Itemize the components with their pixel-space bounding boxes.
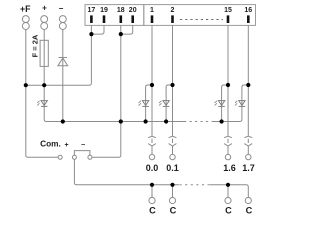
wire stub C contact channel 2 [172, 185, 174, 198]
wire channel 15 LED branch [222, 85, 228, 122]
connector box terminals 1-16 [144, 5, 256, 26]
LED channel 2 [159, 101, 169, 107]
junction +F line / plus bus [24, 83, 28, 87]
C contact circle channel 1 [149, 197, 155, 203]
wire + terminal down through fuse and power LED into minus bus [44, 30, 46, 122]
pin 2 bar [171, 15, 174, 23]
wire - terminal down through diode to minus bus [62, 30, 64, 122]
svg-text:Com.: Com. [40, 139, 61, 149]
svg-text:18: 18 [117, 7, 125, 14]
wire channel 1 LED branch [146, 85, 152, 122]
terminal - (double circle) [59, 16, 66, 23]
svg-text:17: 17 [88, 7, 96, 14]
pin 15 bar [227, 15, 230, 23]
pin 17 bar [90, 15, 93, 23]
junction C bus / channel 15 C contact [226, 183, 230, 187]
pin 16 bar [247, 15, 250, 23]
C bus wire right part turning down to last C contact [210, 185, 248, 198]
svg-text:+F: +F [20, 4, 31, 14]
minus bus wire left part [46, 121, 184, 123]
junction LED branch 1 / minus bus [144, 119, 148, 123]
plug-socket contact channel 15 [224, 136, 232, 160]
junction LED branch 15 / minus bus [220, 119, 224, 123]
junction pins 17/19 [89, 32, 93, 36]
fuse F1 body [40, 40, 48, 66]
wire stub C contact channel 15 [227, 185, 229, 198]
pin 1 bar [151, 15, 154, 23]
wire pin 18 down to Com right contact [92, 25, 121, 157]
C bus dashed continuation [180, 184, 211, 186]
Com contact + circle [72, 155, 76, 159]
svg-text:2: 2 [171, 7, 175, 14]
junction channel 2 / LED branch [170, 83, 174, 87]
plug-socket contact channel 1 [148, 136, 156, 160]
svg-text:19: 19 [100, 7, 108, 14]
wire channel 2 LED branch [166, 85, 172, 122]
svg-text:C: C [170, 206, 177, 216]
junction fuse line / plus bus [42, 83, 46, 87]
plug-socket contact channel 2 [169, 136, 177, 160]
junction C bus / channel 2 C contact [170, 183, 174, 187]
Com contact - circle [88, 155, 92, 159]
wire channel 2 (pin 2 to socket) [172, 25, 174, 136]
wire Com + contact down into C bus [74, 159, 76, 185]
C contact circle channel 16 [245, 197, 251, 203]
wire +F terminal down to Com left contact [26, 30, 58, 158]
diode V1 cathode bar [59, 57, 67, 59]
C contact circle channel 15 [225, 197, 231, 203]
svg-text:C: C [225, 206, 232, 216]
plus bus wire (to pin 17) [26, 25, 92, 85]
wire channel 16 (pin 16 to socket) [247, 25, 249, 136]
svg-text:1.6: 1.6 [223, 163, 236, 173]
dashed continuation pins 2..15 [180, 19, 223, 21]
minus bus wire right part rising into channel 16 LED branch [212, 85, 248, 122]
svg-text:+: + [64, 142, 68, 149]
wire channel 15 (pin 15 to socket) [227, 25, 229, 136]
Com bridge jumper [74, 151, 90, 156]
svg-text:1.7: 1.7 [242, 163, 255, 173]
power LED H1 [37, 101, 47, 107]
minus bus dashed continuation [184, 121, 212, 123]
pin 19 bar [103, 15, 106, 23]
pin 20 bar [131, 15, 134, 23]
C bus wire left part [76, 184, 179, 186]
LED channel 1 [139, 101, 149, 107]
junction pins 18/20 [119, 32, 123, 36]
LED channel 16 [235, 101, 245, 107]
svg-text:C: C [149, 206, 156, 216]
Com contact left circle [58, 155, 62, 159]
svg-text:F = 2A: F = 2A [30, 34, 39, 57]
pin 18 bar [120, 15, 123, 23]
wire channel 1 (pin 1 to socket) [151, 25, 153, 136]
LED channel 15 [215, 101, 225, 107]
junction LED branch 2 / minus bus [164, 119, 168, 123]
svg-text:−: − [81, 142, 85, 149]
svg-text:C: C [246, 206, 253, 216]
diode V1 triangle [58, 58, 68, 66]
svg-text:+: + [42, 4, 47, 13]
junction - line / minus bus [61, 119, 65, 123]
svg-text:15: 15 [224, 7, 232, 14]
wire pin 20 jog to pin 18 [121, 25, 133, 34]
svg-text:1: 1 [150, 7, 154, 14]
svg-text:−: − [59, 4, 64, 13]
junction channel 1 / LED branch [150, 83, 154, 87]
svg-text:0.0: 0.0 [146, 163, 159, 173]
junction channel 16 / LED branch [246, 83, 250, 87]
plug-socket contact channel 16 [244, 136, 252, 160]
wire pin 19 jog to pin 17 [91, 25, 104, 34]
junction 18 line / minus bus [119, 119, 123, 123]
svg-text:0.1: 0.1 [166, 163, 179, 173]
svg-text:20: 20 [129, 7, 137, 14]
terminal +F (double circle) [22, 16, 29, 23]
C contact circle channel 2 [169, 197, 175, 203]
wire stub C contact channel 1 [151, 185, 153, 198]
svg-text:16: 16 [244, 7, 252, 14]
connector box terminals 17-20 [85, 5, 144, 26]
junction C bus / channel 1 C contact [150, 183, 154, 187]
terminal + (double circle) [41, 16, 48, 23]
junction channel 15 / LED branch [226, 83, 230, 87]
